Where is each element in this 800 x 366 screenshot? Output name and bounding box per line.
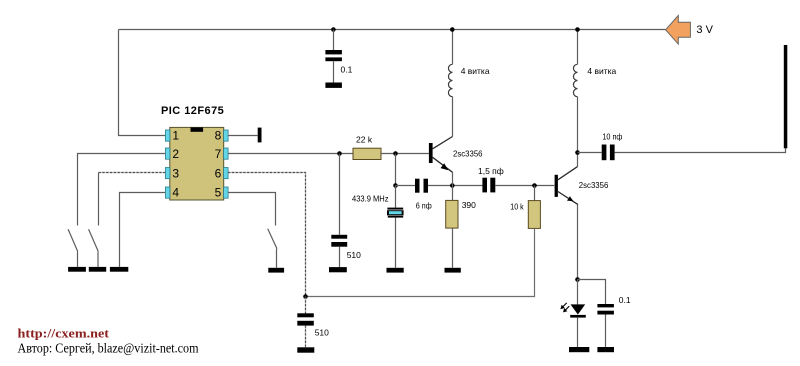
wire: C4 to Q2 base [495, 185, 554, 187]
capacitor C7 0.1 [597, 304, 614, 315]
label C6 value 10 pf [602, 131, 622, 141]
junction: resonator node [393, 183, 398, 188]
label C4 value 1,5 pf [478, 166, 504, 176]
wire: resonator node to C3 [396, 185, 416, 187]
wire: LED to ground [577, 318, 579, 347]
wire: junction to C7 [578, 280, 606, 305]
svg-text:2sc3356: 2sc3356 [579, 180, 609, 190]
svg-text:433.9 MHz: 433.9 MHz [352, 193, 389, 203]
transistor Q1 collector lead [433, 137, 453, 149]
ground: pin 4 [110, 267, 128, 272]
switch S1 blade [68, 229, 78, 251]
svg-text:4: 4 [172, 185, 179, 199]
wire: junction to LED anode [577, 280, 579, 305]
svg-text:22 k: 22 k [356, 135, 373, 145]
wire: Q1 emitter down to node [452, 172, 454, 185]
junction: pin6 net / bottom wire [303, 294, 308, 299]
wire: rail to C1 [333, 30, 335, 51]
ground: C2 [329, 267, 347, 272]
junction: emitter / LED / C7 [575, 277, 580, 282]
capacitor C2 510 [331, 235, 347, 247]
svg-text:1: 1 [172, 128, 179, 142]
junction: Q2 base node / R3 [532, 183, 537, 188]
wire: R1 to Q1 base [381, 153, 429, 155]
wire: pin 2 to left [78, 154, 166, 226]
pin number 1 [172, 128, 179, 142]
wire: C2 to ground [339, 247, 341, 267]
ground: resonator [387, 268, 404, 273]
transistor Q1 2sc3356 base bar [429, 143, 433, 163]
antenna bar [784, 45, 788, 148]
wire: C1 to ground [333, 61, 335, 82]
ground: R2 [445, 268, 461, 273]
svg-text:6 пф: 6 пф [416, 200, 432, 210]
pin number 5 [215, 185, 222, 199]
label C1 value 0.1 [341, 64, 353, 74]
IC pin 5 pad [224, 187, 229, 198]
label C2 value 510 [347, 250, 361, 260]
wire: node to resonator [395, 186, 397, 208]
LED D1 triangle [571, 304, 586, 314]
wire: junction down to C5 [305, 297, 307, 314]
svg-text:5: 5 [215, 185, 222, 199]
wire: R3 down and left to pin6 node [306, 228, 535, 296]
svg-text:http://cxem.net: http://cxem.net [18, 325, 110, 340]
pin number 8 [215, 128, 222, 142]
label Q2 2sc3356 [579, 180, 609, 190]
label site url [18, 325, 110, 340]
svg-text:0.1: 0.1 [341, 64, 353, 74]
junction: collector / C6 branch [575, 150, 580, 155]
wire: junction down to C2 [339, 154, 341, 235]
wire: node down to R3 [534, 186, 536, 201]
resistor R2 390 [446, 200, 458, 228]
wire: S3 to ground [276, 249, 278, 268]
LED D1 cathode bar [570, 315, 586, 318]
svg-text:1,5 пф: 1,5 пф [478, 166, 504, 176]
wire: C7 to ground [605, 315, 607, 348]
wire: V+ supply rail [119, 29, 666, 31]
wire: pin 7 to R1 [228, 153, 353, 155]
terminal bar at pin 8 [258, 128, 262, 143]
wire: S1 to ground [77, 251, 79, 267]
junction: rail / L1 [450, 27, 455, 32]
svg-text:0.1: 0.1 [619, 295, 631, 305]
IC pin 8 pad [224, 130, 229, 141]
svg-text:7: 7 [215, 147, 222, 161]
wire: C3 to emitter node [428, 185, 482, 187]
label C3 value 6 pf [416, 200, 432, 210]
svg-text:Автор: Сергей, blaze@vizit-net: Автор: Сергей, blaze@vizit-net.com [18, 340, 200, 355]
IC pin 2 pad [165, 148, 170, 159]
label author line [18, 340, 200, 355]
svg-text:8: 8 [215, 128, 222, 142]
inductor L2 4 turns [573, 64, 577, 96]
IC pin 6 pad [224, 168, 229, 179]
wire: L2 to rail [577, 30, 579, 65]
svg-text:510: 510 [347, 250, 361, 260]
pin number 3 [172, 166, 179, 180]
inductor L1 4 turns [448, 64, 452, 96]
pin number 6 [215, 166, 222, 180]
label C5 value 510 [315, 327, 329, 337]
capacitor C3 6 pf [415, 179, 428, 193]
IC pin 1 pad [165, 130, 170, 141]
label R1 value 22 k [356, 135, 373, 145]
capacitor C5 510 [297, 313, 314, 325]
junction: rail / C1 stub [331, 27, 336, 32]
wire: base node down [395, 154, 397, 186]
svg-text:3: 3 [172, 166, 179, 180]
label U1 name PIC 12F675 [161, 105, 224, 117]
IC pin 4 pad [165, 187, 170, 198]
resistor R1 22k [353, 148, 381, 159]
svg-text:4 витка: 4 витка [587, 66, 616, 76]
label 3 V [696, 24, 713, 36]
transistor Q2 2sc3356 base bar [555, 175, 558, 197]
power arrow 3V [666, 16, 691, 45]
wire: S2 to ground [97, 251, 99, 267]
wire: pin 5 to right [228, 193, 275, 226]
svg-text:10 k: 10 k [510, 201, 524, 211]
wire: Q2 emitter down [577, 205, 579, 280]
label ZQ1 value 433.9 MHz [352, 193, 389, 203]
IC U1 PIC 12F675 body [170, 127, 224, 200]
svg-text:PIC 12F675: PIC 12F675 [161, 105, 224, 117]
wire: pin 6 to right and down (gray dashed net) [228, 173, 305, 297]
ground: S3 [268, 268, 284, 273]
junction: rail / L2 [575, 27, 580, 32]
IC U1 notch mark [191, 127, 204, 131]
resistor R3 10 k [528, 201, 540, 229]
wire: resonator to ground [395, 218, 397, 268]
wire: Q2 collector up to coil L2 [577, 97, 579, 167]
svg-text:6: 6 [215, 166, 222, 180]
junction: Q1 emitter node [450, 183, 455, 188]
wire: rail down-left to pin 1 [119, 30, 166, 136]
IC pin 7 pad [224, 148, 229, 159]
svg-text:510: 510 [315, 327, 329, 337]
svg-text:390: 390 [462, 200, 476, 210]
ground: LED [569, 347, 589, 352]
capacitor C6 10 pf [602, 145, 615, 161]
wire: pin 4 to left and ground [120, 193, 166, 267]
svg-text:10 пф: 10 пф [602, 131, 622, 141]
svg-text:2: 2 [172, 147, 179, 161]
junction: pin7 net / C2 stub [337, 151, 342, 156]
capacitor C1 0.1 [325, 50, 342, 61]
wire: emitter node down to R2 [452, 186, 454, 201]
label Q1 2sc3356 [453, 148, 483, 158]
wire: pin 8 stub [228, 135, 258, 137]
wire: pin 3 to left (gray dashed net) [99, 173, 166, 226]
label C7 value 0.1 [619, 295, 631, 305]
ground: S1 [68, 267, 86, 272]
IC pin 3 pad [165, 168, 170, 179]
label R3 value 10 k [510, 201, 524, 211]
ground: C5 [297, 347, 314, 352]
label R2 value 390 [462, 200, 476, 210]
svg-text:2sc3356: 2sc3356 [453, 148, 483, 158]
svg-text:4 витка: 4 витка [461, 66, 490, 76]
svg-text:3 V: 3 V [696, 24, 713, 36]
wire: Q1 collector up to coil L1 [452, 97, 454, 137]
ground: C7 [597, 347, 614, 352]
switch S2 blade [89, 229, 99, 251]
resonator ZQ1 433.9 MHz [387, 208, 404, 218]
transistor Q1 emitter lead with arrow [433, 157, 453, 172]
label L1 4 витка [461, 66, 490, 76]
LED D1 light arrows [560, 303, 569, 313]
wire: collector junction to C6 [578, 152, 602, 154]
switch S3 blade [268, 229, 277, 249]
wire: C6 to antenna [615, 148, 786, 152]
label L2 4 витка [587, 66, 616, 76]
wire: L1 to rail [452, 30, 454, 65]
wire: R2 to ground [452, 228, 454, 268]
transistor Q2 emitter lead with arrow [558, 192, 578, 205]
ground: S2 [89, 267, 106, 272]
pin number 7 [215, 147, 222, 161]
capacitor C4 1,5 pf [482, 178, 495, 193]
pin number 2 [172, 147, 179, 161]
ground: C1 [325, 83, 342, 88]
transistor Q2 collector lead [558, 167, 578, 180]
wire: C5 to ground [305, 326, 307, 348]
pin number 4 [172, 185, 179, 199]
junction: R1 right / base node [393, 151, 398, 156]
